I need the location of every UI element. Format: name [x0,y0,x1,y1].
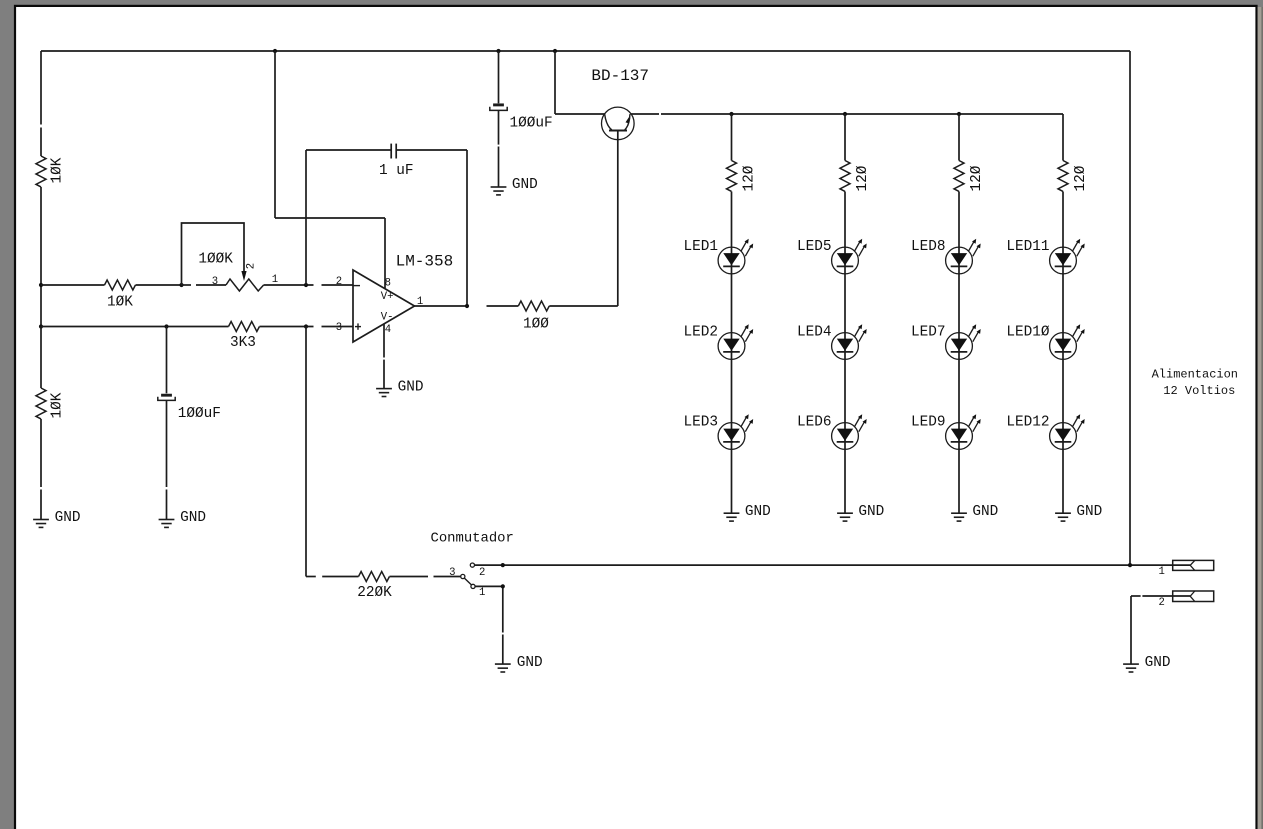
resistor 120 col2 [840,161,850,192]
ground (100uF left) [159,519,175,521]
LED LED11 [1050,247,1077,274]
svg-text:2: 2 [479,567,485,579]
svg-text:GND: GND [512,177,538,193]
ground (op-amp pin4) [376,388,392,390]
switch pivot contact pin3 [461,574,465,578]
svg-text:1ØØK: 1ØØK [198,252,233,268]
wire col4 top [1062,114,1064,161]
svg-text:LED12: LED12 [1006,415,1049,431]
wire cap 1uF left branch [305,150,307,285]
junction row1 / cap branch [304,283,308,287]
svg-text:1ØK: 1ØK [49,392,65,418]
svg-text:1ØØ: 1ØØ [523,317,549,333]
wire 100uF(top) lower lead [498,110,500,144]
svg-text:LED2: LED2 [683,325,718,341]
wire y218 horizontal [275,217,385,219]
wire col2 top [844,114,846,161]
potentiometer 100K [196,284,226,286]
svg-text:GND: GND [745,504,771,520]
resistor 10K horizontal [105,280,136,290]
ground (100uF top) [491,186,507,188]
resistor 120 col4 [1058,161,1068,192]
wire 100uF(top) upper lead [498,51,500,103]
junction LED rail col1 [729,112,733,116]
svg-text:1ØK: 1ØK [107,295,133,311]
svg-text:3: 3 [336,322,342,334]
wire left vertical upper [40,51,42,125]
svg-text:LM-358: LM-358 [396,252,454,270]
svg-text:LED3: LED3 [683,415,718,431]
svg-text:LED6: LED6 [797,415,832,431]
svg-text:LED5: LED5 [797,239,832,255]
transistor Q BD-137 [602,107,635,140]
wire col4 LED chain [1062,192,1064,514]
wire collector branch [554,51,556,114]
svg-text:GND: GND [55,510,81,526]
svg-text:1ØØuF: 1ØØuF [510,116,553,132]
svg-text:2: 2 [246,263,258,269]
junction pin2 wire [501,563,505,567]
ground (connector 2) [1123,663,1139,665]
svg-text:12Ø: 12Ø [742,165,758,191]
resistor 120 col3 [954,161,964,192]
svg-text:LED8: LED8 [911,239,946,255]
wire pin1 to ground [475,585,503,587]
wire row1 to pot [136,284,182,286]
wire pot pin1 to opamp [264,284,314,286]
wire 100uF(left) top lead [166,327,168,394]
ground (left 10K) [33,519,49,521]
wire left vertical mid [40,187,42,327]
wire x306 down to switch row [305,327,307,577]
junction rail / 100uF top [496,49,500,53]
wire pot pin3 lead [182,284,192,286]
svg-text:LED7: LED7 [911,325,946,341]
wire opamp pin8 vertical [384,218,386,288]
wire connector2 branch [1131,595,1141,597]
wire left vertical lower [40,327,42,389]
wire opamp output [415,305,468,307]
ground (switch) [495,663,511,665]
svg-text:GND: GND [1076,504,1102,520]
wire switch row left [306,576,316,578]
LED LED8 [946,247,973,274]
resistor 10K lower-left [36,388,46,419]
wire right vertical to connector [1129,51,1131,565]
svg-text:8: 8 [385,278,391,290]
wire col1 top [731,114,733,161]
junction pin1 corner [501,584,505,588]
svg-text:Alimentacion: Alimentacion [1152,367,1238,381]
svg-text:4: 4 [385,324,391,336]
junction node A (left, row1) [39,283,43,287]
svg-text:22ØK: 22ØK [357,585,392,601]
svg-text:3: 3 [212,276,218,288]
LED LED2 [718,333,745,360]
wire opamp pin4 to ground [383,324,385,358]
svg-text:V+: V+ [381,291,394,303]
resistor 3K3 [229,322,260,332]
svg-text:GND: GND [972,504,998,520]
svg-text:GND: GND [858,504,884,520]
op-amp inverting input tick [353,285,360,287]
potentiometer 100K wiper arrow [241,271,246,281]
resistor 10K upper-left [36,156,46,187]
LED LED6 [832,423,859,450]
ground (col2) [837,512,853,514]
wire row1 left [41,284,105,286]
junction node B (left, row2) [39,324,43,328]
svg-text:1 uF: 1 uF [379,163,414,179]
svg-text:BD-137: BD-137 [591,67,649,85]
wire output to 100 ohm [487,305,519,307]
svg-text:LED1Ø: LED1Ø [1006,325,1050,341]
LED LED9 [946,423,973,450]
junction row2 / 100uF branch [164,324,168,328]
connector pin 2 [1173,591,1214,602]
wire to left ground [40,419,42,487]
op-amp non-inverting input plus [355,326,361,328]
wire col2 LED chain [844,192,846,514]
connector pin 1 [1173,560,1214,570]
svg-text:GND: GND [517,655,543,671]
svg-text:3K3: 3K3 [230,335,256,351]
junction row2 / switch branch [304,324,308,328]
ground (col4) [1055,512,1071,514]
LED LED7 [946,333,973,360]
LED LED4 [832,333,859,360]
ground (col3) [951,512,967,514]
LED LED5 [832,247,859,274]
svg-text:LED4: LED4 [797,325,832,341]
junction pot pin3 node [179,283,183,287]
wire x275 vertical [274,51,276,218]
wire col3 top [958,114,960,161]
svg-text:LED1: LED1 [683,239,718,255]
svg-text:V-: V- [381,312,394,324]
resistor 100 [518,301,549,311]
resistor 120 col1 [727,161,737,192]
wire emitter to LED rail [631,113,660,115]
svg-text:LED11: LED11 [1006,239,1049,255]
capacitor 100uF (left) [161,394,172,397]
junction right rail / connector [1128,563,1132,567]
LED LED10 [1050,333,1077,360]
resistor 220K [359,572,390,582]
svg-text:2: 2 [1159,597,1165,609]
svg-text:3: 3 [449,567,455,579]
wire col1 LED chain [731,192,733,514]
junction rail / collector branch [553,49,557,53]
wire cap 1uF right branch [396,149,467,151]
svg-text:GND: GND [180,510,206,526]
svg-text:12Ø: 12Ø [1073,165,1089,191]
svg-text:1: 1 [479,587,485,599]
svg-text:12 Voltios: 12 Voltios [1163,384,1235,398]
wire 220K to switch [390,576,429,578]
ground (col1) [724,512,740,514]
svg-text:1ØK: 1ØK [49,157,65,183]
junction top rail / x275 branch [273,49,277,53]
svg-text:Conmutador: Conmutador [431,530,514,546]
junction LED rail col3 [957,112,961,116]
switch contact pin1 [471,584,475,588]
svg-text:GND: GND [398,379,424,395]
svg-text:2: 2 [336,276,342,288]
wire pot body loop [182,223,245,285]
junction LED rail col2 [843,112,847,116]
svg-text:1: 1 [1159,566,1165,578]
svg-text:GND: GND [1145,655,1171,671]
LED LED1 [718,247,745,274]
wire 100uF(left) bottom lead [166,400,168,487]
LED LED12 [1050,423,1077,450]
wire pin2 to connector [475,564,1191,566]
wire row2 to opamp [260,326,314,328]
wire +12V top rail [41,50,1130,52]
svg-text:12Ø: 12Ø [855,165,871,191]
wire row2 left [41,326,229,328]
svg-text:LED9: LED9 [911,415,946,431]
svg-text:12Ø: 12Ø [969,165,985,191]
LED LED3 [718,423,745,450]
capacitor 100uF (top) [493,103,504,106]
switch arm [464,578,471,585]
wire col3 LED chain [958,192,960,514]
op-amp LM-358 [353,270,415,342]
junction output node [465,304,469,308]
wire 100 ohm to transistor base [549,305,618,307]
capacitor C 1uF [390,144,392,159]
svg-text:1ØØuF: 1ØØuF [178,406,221,422]
switch contact pin2 [470,563,474,567]
